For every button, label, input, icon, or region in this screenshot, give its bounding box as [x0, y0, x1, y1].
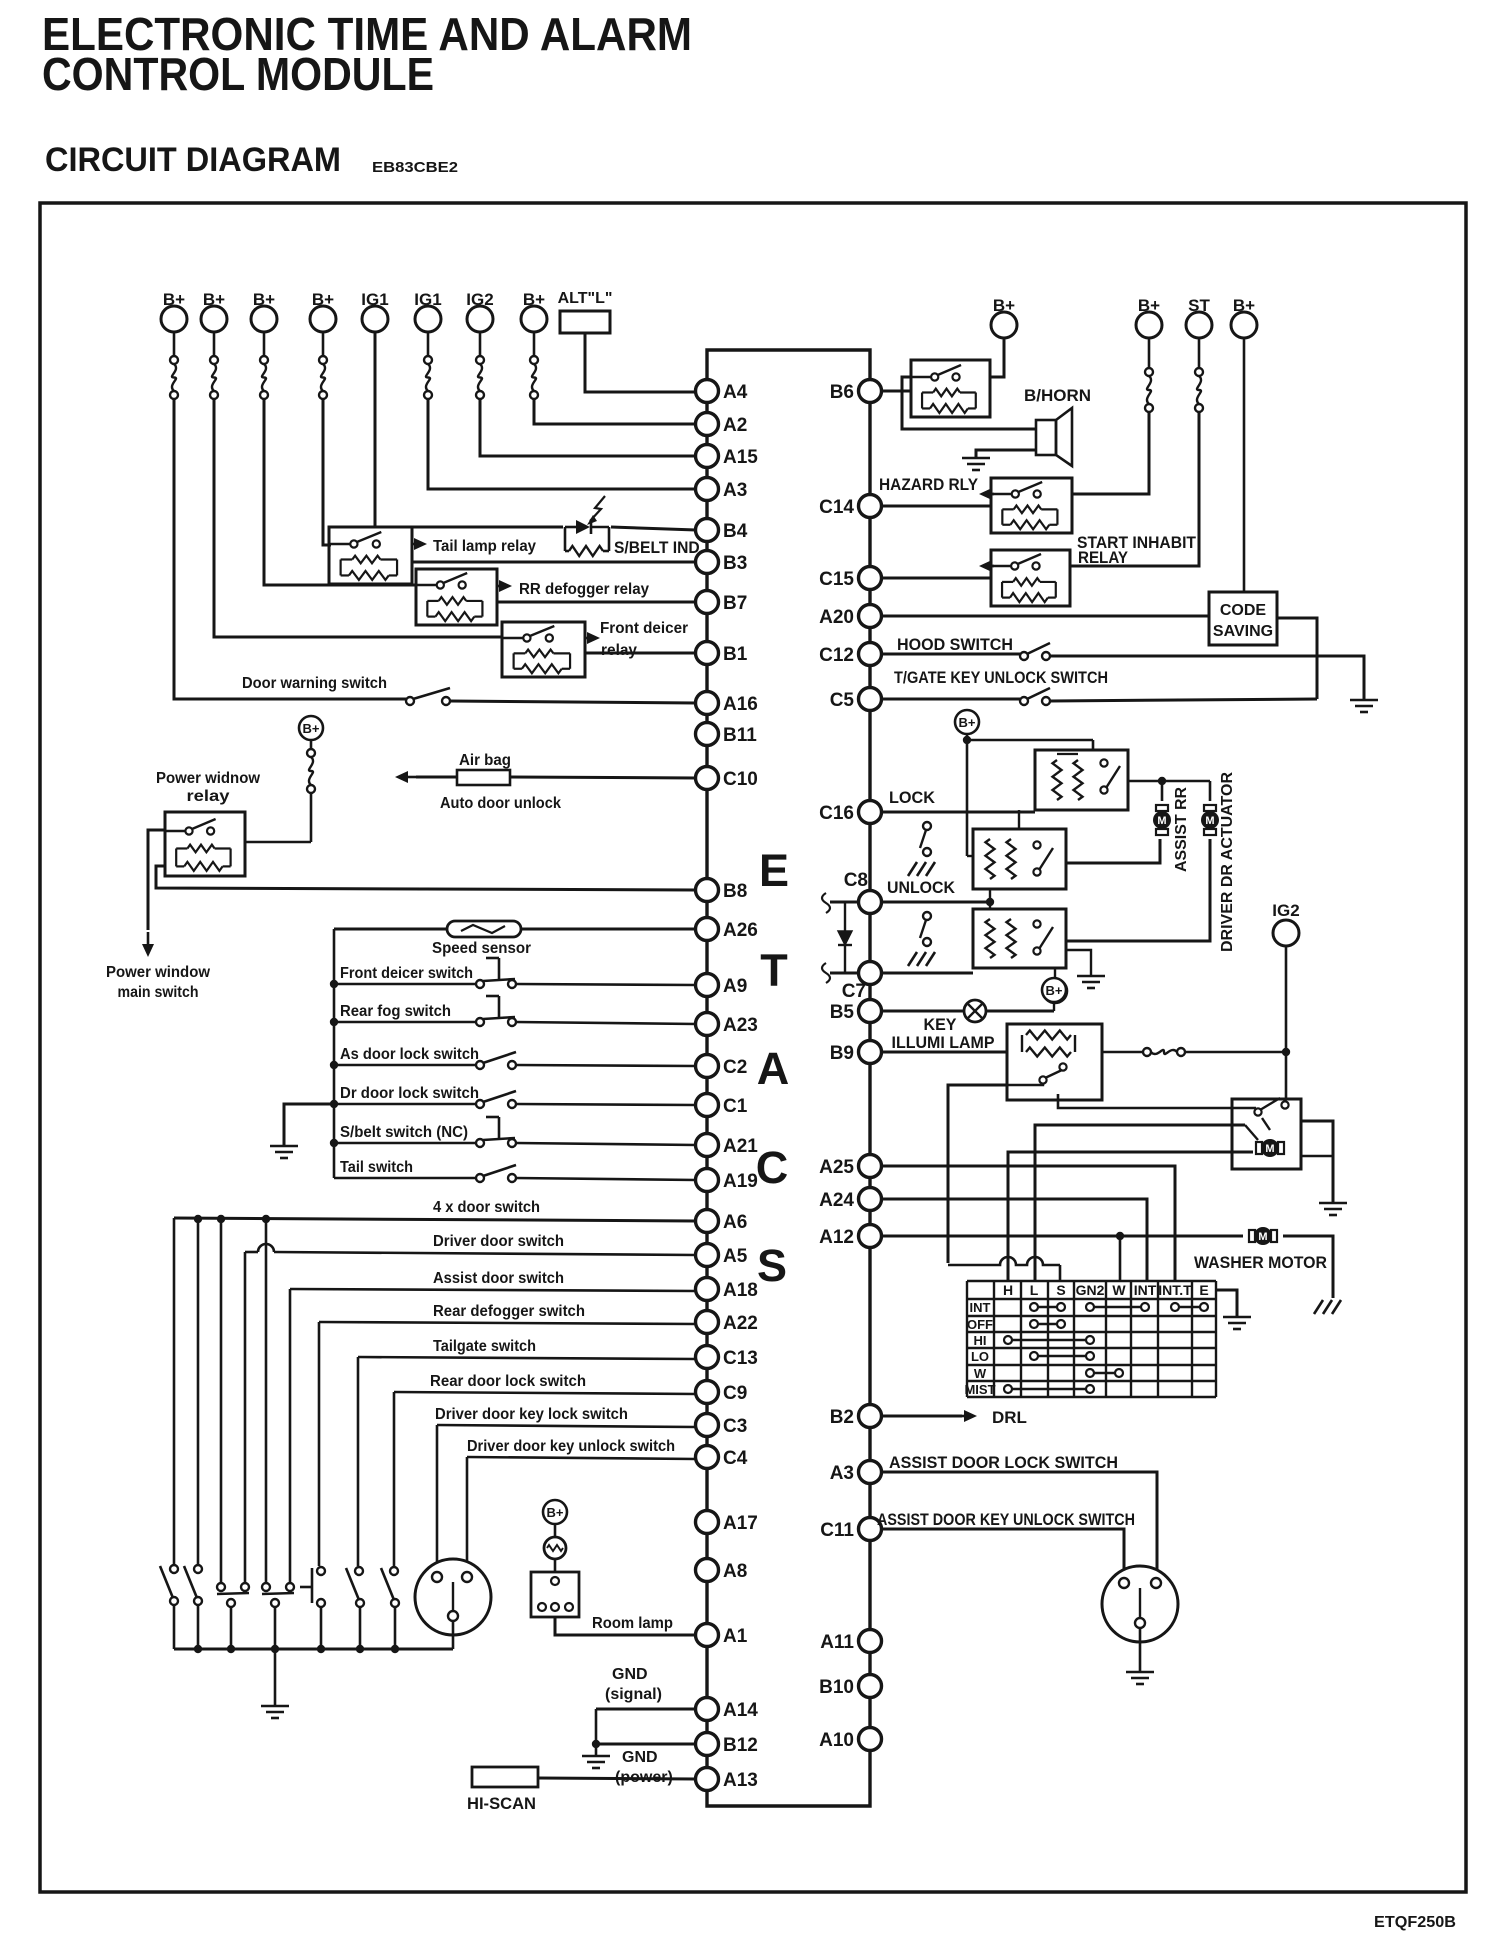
pin C1 [696, 1094, 719, 1117]
pin B3 [696, 551, 719, 574]
wire upper relay to actuators [1128, 780, 1210, 783]
svg-text:A24: A24 [819, 1190, 854, 1211]
pin B12 [696, 1733, 719, 1756]
pin C4 [696, 1446, 719, 1469]
pin A22 [696, 1311, 719, 1334]
svg-text:LOCK: LOCK [889, 788, 936, 807]
pin A6 [696, 1210, 719, 1233]
svg-text:Driver door key lock switch: Driver door key lock switch [435, 1406, 628, 1423]
svg-text:A11: A11 [820, 1632, 854, 1653]
room lamp switch box [531, 1572, 579, 1617]
B2 to DRL [881, 1415, 962, 1418]
pin A10 (right) [859, 1728, 882, 1751]
pin B6 (right) [859, 380, 882, 403]
rear door lock switch contact [390, 1567, 398, 1575]
table contacts OFF row [1030, 1320, 1038, 1328]
pin A21 [696, 1134, 719, 1157]
svg-text:E: E [1199, 1282, 1208, 1298]
svg-text:B3: B3 [723, 553, 747, 574]
wire left connector bus [705, 380, 708, 1790]
pin A12 (right) [859, 1225, 882, 1248]
pin A24 (right) [859, 1188, 882, 1211]
pin B10 (right) [859, 1675, 882, 1698]
svg-text:M: M [1258, 1231, 1267, 1243]
svg-text:B+: B+ [959, 715, 976, 730]
pin A4 [696, 380, 719, 403]
svg-text:C14: C14 [819, 497, 854, 518]
wire A12 to washer motor [881, 1235, 1243, 1238]
B+ key illumi [1042, 978, 1066, 1002]
svg-text:M: M [1205, 815, 1214, 827]
svg-text:Driver door key unlock switch: Driver door key unlock switch [467, 1438, 675, 1455]
pin C14 (right) [859, 495, 882, 518]
svg-text:INT: INT [970, 1300, 991, 1315]
svg-text:Front deicer switch: Front deicer switch [340, 965, 473, 982]
pin B4 [696, 519, 719, 542]
pin C9 [696, 1381, 719, 1404]
wire code saving to T/GATE row [1277, 618, 1317, 699]
tail lamp relay [329, 527, 412, 584]
svg-text:M: M [1265, 1143, 1274, 1155]
svg-text:B11: B11 [723, 725, 757, 746]
room lamp bulb [544, 1537, 566, 1559]
wire power window relay to B8 [156, 866, 696, 890]
wire A24 to INT column [881, 1199, 1147, 1281]
svg-text:C16: C16 [819, 803, 854, 824]
HI-SCAN connector [472, 1767, 538, 1787]
svg-text:B7: B7 [723, 593, 747, 614]
ground for door lock switches [284, 1104, 334, 1146]
svg-text:C5: C5 [830, 690, 855, 711]
pin C5 (right) [859, 688, 882, 711]
wire lower relay to driver motor [1066, 839, 1210, 941]
pin A11 (right) [859, 1630, 882, 1653]
wire power window relay to main switch (arrow) [148, 830, 165, 930]
svg-text:C13: C13 [723, 1348, 758, 1369]
pin A3 (right) [859, 1461, 882, 1484]
svg-text:Rear fog switch: Rear fog switch [340, 1003, 451, 1020]
svg-text:ILLUMI LAMP: ILLUMI LAMP [892, 1033, 995, 1052]
svg-text:A16: A16 [723, 694, 758, 715]
assist door key cylinder switch [1102, 1566, 1178, 1642]
svg-text:A23: A23 [723, 1015, 758, 1036]
wire B+2 to front deicer relay [214, 399, 502, 637]
pin A20 (right) [859, 605, 882, 628]
table contacts INT row [1030, 1303, 1038, 1311]
door lock relay (middle) [973, 829, 1066, 889]
svg-text:B5: B5 [830, 1002, 855, 1023]
svg-text:Room lamp: Room lamp [592, 1615, 673, 1632]
svg-text:A6: A6 [723, 1212, 747, 1233]
B+ feed room lamp [543, 1500, 567, 1524]
svg-text:A: A [757, 1043, 790, 1094]
svg-text:B+: B+ [303, 721, 320, 736]
inter-relay connectors [1018, 810, 1020, 829]
wire C16 row [881, 811, 1035, 814]
svg-text:HAZARD RLY: HAZARD RLY [879, 475, 979, 494]
wire C7 row [881, 972, 973, 975]
wire bottom bridge A13 to A10 [707, 1742, 870, 1806]
svg-text:ETQF250B: ETQF250B [1374, 1914, 1456, 1931]
svg-text:C11: C11 [820, 1520, 854, 1541]
svg-text:S: S [757, 1240, 787, 1291]
door switch 3 + driver door switch (changeover) [217, 1583, 225, 1591]
pin A2 [696, 413, 719, 436]
wire room lamp to A1 [555, 1617, 696, 1635]
wire right connector bus [868, 391, 871, 1739]
svg-text:Dr door lock switch: Dr door lock switch [340, 1085, 479, 1102]
svg-text:A8: A8 [723, 1561, 747, 1582]
svg-text:A15: A15 [723, 447, 758, 468]
wire A20 to code saving [881, 615, 1209, 618]
svg-text:B10: B10 [819, 1677, 854, 1698]
pin C7 (right) [859, 962, 882, 985]
GND (power) to B12 [596, 1743, 696, 1746]
ground hood switch [1350, 699, 1378, 702]
horn relay [911, 360, 990, 417]
svg-text:B+: B+ [1046, 983, 1063, 998]
svg-text:H: H [1003, 1282, 1013, 1298]
pin A17 [696, 1511, 719, 1534]
pin A25 (right) [859, 1155, 882, 1178]
svg-text:E: E [759, 845, 789, 896]
svg-text:DRIVER DR ACTUATOR: DRIVER DR ACTUATOR [1219, 772, 1236, 952]
intermittent wiper relay [1232, 1099, 1301, 1169]
svg-text:Assist door switch: Assist door switch [433, 1270, 564, 1287]
wire B+1 to door warning switch to A16 [174, 399, 406, 699]
pin B1 [696, 642, 719, 665]
svg-text:T/GATE KEY UNLOCK SWITCH: T/GATE KEY UNLOCK SWITCH [894, 668, 1108, 687]
pin C2 [696, 1055, 719, 1078]
pin C8 (right) [859, 891, 882, 914]
door lock relay (upper) [1035, 750, 1128, 810]
svg-text:C1: C1 [723, 1096, 748, 1117]
svg-text:SAVING: SAVING [1213, 623, 1273, 640]
svg-text:A10: A10 [819, 1730, 854, 1751]
svg-text:S/belt switch (NC): S/belt switch (NC) [340, 1124, 468, 1141]
assist rear actuator motor [1156, 805, 1168, 811]
pin A1 [696, 1624, 719, 1647]
svg-text:CIRCUIT DIAGRAM: CIRCUIT DIAGRAM [45, 141, 341, 179]
fuse on IG1 x428 [424, 356, 432, 364]
pin B7 [696, 591, 719, 614]
svg-text:(signal): (signal) [605, 1686, 662, 1703]
table contacts MIST row [1004, 1385, 1012, 1393]
svg-text:C10: C10 [723, 769, 758, 790]
svg-text:A25: A25 [819, 1157, 854, 1178]
B+ feed door lock [955, 710, 979, 734]
svg-text:A19: A19 [723, 1171, 758, 1192]
svg-text:HI-SCAN: HI-SCAN [467, 1794, 536, 1813]
svg-text:RR defogger relay: RR defogger relay [519, 581, 649, 598]
svg-text:Door warning switch: Door warning switch [242, 675, 387, 692]
svg-text:HI: HI [974, 1333, 987, 1348]
svg-text:A26: A26 [723, 920, 758, 941]
wire front deicer relay to B1 [585, 652, 696, 655]
ground lower relay [1066, 950, 1091, 976]
pin A18 [696, 1278, 719, 1301]
pin A23 [696, 1013, 719, 1036]
wire B+3 to RR defogger relay [264, 399, 416, 585]
svg-text:S/BELT IND.: S/BELT IND. [614, 538, 704, 557]
pin B5 (right) [859, 1000, 882, 1023]
svg-text:A1: A1 [723, 1626, 748, 1647]
svg-text:A17: A17 [723, 1513, 758, 1534]
svg-text:A13: A13 [723, 1770, 758, 1791]
svg-text:INT: INT [1134, 1282, 1157, 1298]
off-page squiggles C8/C7 [822, 893, 830, 913]
door switch 1 [170, 1565, 178, 1573]
wire B+4 to tail lamp relay [323, 399, 331, 545]
driver door actuator motor [1204, 805, 1216, 811]
pin B8 [696, 879, 719, 902]
B+ feed for power window relay [299, 716, 323, 740]
wire tail lamp relay to B3 [412, 561, 696, 564]
svg-text:Tail switch: Tail switch [340, 1159, 413, 1176]
diode between C8 and C7 [830, 901, 858, 904]
svg-text:Rear door lock switch: Rear door lock switch [430, 1373, 586, 1390]
svg-text:A18: A18 [723, 1280, 758, 1301]
ground key cylinder [1139, 1628, 1142, 1672]
fuse on B+ x214 [210, 356, 218, 364]
wire left manifold vertical for switch rows [333, 929, 336, 1178]
ground for horn [976, 450, 1036, 458]
svg-text:Speed sensor: Speed sensor [432, 940, 531, 957]
door lock relay (lower) [973, 909, 1066, 968]
pin C13 [696, 1346, 719, 1369]
svg-text:MIST: MIST [964, 1382, 995, 1397]
pin C15 (right) [859, 567, 882, 590]
fuse on B+ x534 [530, 356, 538, 364]
svg-text:W: W [1112, 1282, 1126, 1298]
table contacts LO row [1030, 1352, 1038, 1360]
driver door key cylinder switch [415, 1559, 491, 1635]
pin A16 [696, 692, 719, 715]
svg-text:B/HORN: B/HORN [1024, 386, 1091, 405]
svg-text:C3: C3 [723, 1416, 747, 1437]
wire 4x door descenders [173, 1218, 176, 1565]
pin A5 [696, 1244, 719, 1267]
svg-text:As door lock switch: As door lock switch [340, 1046, 479, 1063]
RR defogger relay [416, 569, 497, 625]
svg-text:relay: relay [601, 642, 637, 659]
svg-text:T: T [760, 945, 788, 996]
svg-text:S: S [1056, 1282, 1065, 1298]
wire H column to wiper relay [1008, 1152, 1253, 1281]
wire IG1-2 to A3 [428, 399, 696, 489]
svg-text:ALT"L": ALT"L" [558, 290, 613, 307]
svg-text:ASSIST DOOR KEY UNLOCK SWITCH: ASSIST DOOR KEY UNLOCK SWITCH [877, 1510, 1135, 1529]
fuse on IG2 x480 [476, 356, 484, 364]
svg-text:B12: B12 [723, 1735, 758, 1756]
svg-text:B8: B8 [723, 881, 747, 902]
svg-text:B+: B+ [547, 1505, 564, 1520]
svg-text:B2: B2 [830, 1407, 854, 1428]
svg-text:GND: GND [612, 1666, 648, 1683]
svg-text:CONTROL MODULE: CONTROL MODULE [42, 48, 434, 100]
svg-text:C: C [756, 1142, 789, 1193]
svg-text:A21: A21 [723, 1136, 758, 1157]
wiper relay grounds [1301, 1121, 1333, 1203]
door switch 2 [194, 1565, 202, 1573]
wiper switch table [966, 1281, 968, 1397]
svg-text:Driver door switch: Driver door switch [433, 1233, 564, 1250]
table contacts W row [1086, 1369, 1094, 1377]
wire A26 row [521, 928, 696, 931]
wire A25 to INT.T column [881, 1166, 1175, 1281]
pin A9 [696, 974, 719, 997]
svg-text:B4: B4 [723, 521, 748, 542]
wire ALT"L" to A4 [585, 333, 696, 392]
svg-text:RELAY: RELAY [1078, 548, 1129, 567]
svg-text:C15: C15 [819, 569, 854, 590]
svg-text:B6: B6 [830, 382, 854, 403]
fuse on B+ x264 [260, 356, 268, 364]
svg-text:A3: A3 [830, 1463, 854, 1484]
svg-text:A9: A9 [723, 976, 747, 997]
unlock switch branch [923, 912, 931, 920]
svg-text:LO: LO [971, 1349, 989, 1364]
washer motor [1249, 1230, 1255, 1242]
svg-text:C9: C9 [723, 1383, 747, 1404]
svg-text:B1: B1 [723, 644, 748, 665]
B+ below lower relay [1054, 968, 1056, 979]
svg-text:Air bag: Air bag [459, 752, 511, 769]
svg-text:Tail lamp relay: Tail lamp relay [433, 538, 536, 555]
pin A3 [696, 478, 719, 501]
wire B+ to horn relay switch [990, 338, 1004, 377]
fuse power window [307, 749, 315, 757]
pin A26 [696, 918, 719, 941]
svg-text:C8: C8 [844, 870, 868, 891]
fuse on B+ x323 [319, 356, 327, 364]
svg-text:Power window: Power window [106, 964, 211, 981]
wire L column to wiper relay [1035, 1125, 1245, 1281]
pin C3 [696, 1414, 719, 1437]
svg-text:Auto door unlock: Auto door unlock [440, 795, 561, 812]
key illumi timer relay [1007, 1024, 1102, 1100]
svg-text:C4: C4 [723, 1448, 748, 1469]
code saving unit [1209, 592, 1277, 645]
wire illumi relay upper contact to intermittent relay [1058, 1094, 1256, 1108]
svg-text:W: W [974, 1366, 987, 1381]
svg-text:DRL: DRL [992, 1408, 1027, 1427]
svg-text:CODE: CODE [1220, 602, 1267, 619]
svg-text:HOOD SWITCH: HOOD SWITCH [897, 635, 1013, 654]
wire RR defogger relay to B7 [497, 601, 696, 604]
svg-text:A2: A2 [723, 415, 747, 436]
pin A13 [696, 1768, 719, 1791]
ground of switch bus [261, 1705, 289, 1708]
fuse key illumi to IG2 [1102, 1051, 1143, 1054]
svg-text:EB83CBE2: EB83CBE2 [372, 159, 458, 176]
svg-text:Tailgate switch: Tailgate switch [433, 1338, 536, 1355]
svg-text:relay: relay [187, 788, 230, 805]
svg-text:4 x door switch: 4 x door switch [433, 1199, 540, 1216]
rear defogger switch contact (push) [317, 1567, 325, 1575]
pin C12 (right) [859, 643, 882, 666]
svg-text:ASSIST DOOR LOCK SWITCH: ASSIST DOOR LOCK SWITCH [889, 1453, 1118, 1472]
svg-text:A12: A12 [819, 1227, 854, 1248]
wire middle relay to assist motor [1066, 839, 1160, 863]
pin B2 (right) [859, 1405, 882, 1428]
svg-text:A4: A4 [723, 382, 748, 403]
table E to ground [1216, 1290, 1237, 1317]
pin B11 [696, 723, 719, 746]
svg-text:GND: GND [622, 1749, 658, 1766]
pin A14 [696, 1698, 719, 1721]
svg-text:GN2: GN2 [1076, 1282, 1105, 1298]
pin B9 (right) [859, 1041, 882, 1064]
wire IG1 to S/BELT IND to B4 [375, 332, 563, 527]
svg-text:A3: A3 [723, 480, 747, 501]
key illumination lamp [881, 1010, 964, 1013]
pin C16 (right) [859, 801, 882, 824]
tailgate switch contact [355, 1567, 363, 1575]
lock switch branch [923, 822, 931, 830]
speed sensor [447, 921, 521, 937]
pin C11 (right) [859, 1518, 882, 1541]
svg-text:ASSIST RR: ASSIST RR [1173, 787, 1190, 872]
wire illumi relay to wiper switch unit [1007, 1084, 1043, 1085]
svg-text:C12: C12 [819, 645, 854, 666]
svg-text:M: M [1157, 815, 1166, 827]
svg-text:INT.T: INT.T [1158, 1282, 1192, 1298]
svg-text:KEY: KEY [924, 1015, 958, 1034]
door switch 4 + assist door switch (changeover) [262, 1583, 270, 1591]
svg-text:C2: C2 [723, 1057, 747, 1078]
wire HI-SCAN to A13 [538, 1778, 696, 1779]
common ground bus for bottom switches [174, 1648, 453, 1651]
fuse on B+ x174 [170, 356, 178, 364]
pin A19 [696, 1169, 719, 1192]
wire B+8 to A2 [534, 399, 696, 424]
svg-text:A20: A20 [819, 607, 854, 628]
svg-text:Power widnow: Power widnow [156, 770, 261, 787]
svg-text:L: L [1030, 1282, 1039, 1298]
svg-text:C7: C7 [842, 981, 866, 1002]
wire C8 row [881, 901, 990, 904]
pin A8 [696, 1559, 719, 1582]
svg-text:WASHER MOTOR: WASHER MOTOR [1194, 1253, 1327, 1272]
svg-text:A14: A14 [723, 1700, 758, 1721]
svg-text:OFF: OFF [967, 1317, 993, 1332]
svg-text:IG2: IG2 [1272, 901, 1299, 920]
svg-text:A5: A5 [723, 1246, 748, 1267]
svg-text:main switch: main switch [118, 984, 199, 1001]
seat belt indicator S/BELT IND (LED + resistor) [564, 527, 567, 551]
svg-text:B9: B9 [830, 1043, 854, 1064]
svg-text:A22: A22 [723, 1313, 758, 1334]
front deicer relay [502, 622, 585, 677]
pin A15 [696, 445, 719, 468]
wire top bridge A4 to B6 [707, 350, 870, 382]
wire IG2 to A15 [480, 399, 696, 456]
svg-text:UNLOCK: UNLOCK [887, 878, 956, 897]
table contacts HI row [1004, 1336, 1012, 1344]
svg-text:Rear defogger switch: Rear defogger switch [433, 1303, 585, 1320]
pin C10 [696, 767, 719, 790]
svg-text:Front deicer: Front deicer [600, 620, 688, 637]
